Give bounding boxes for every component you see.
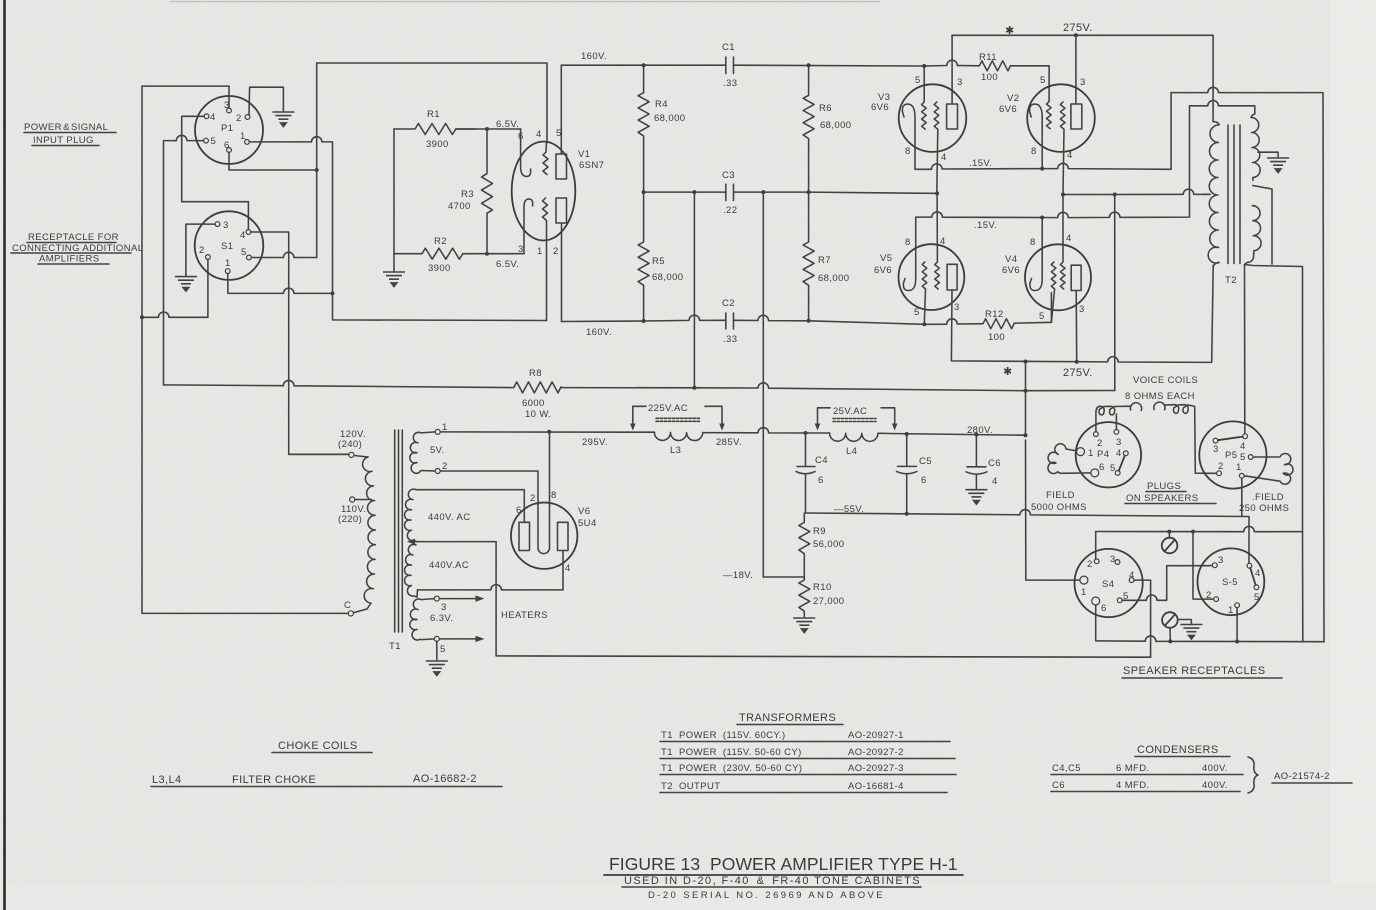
- plug P4: [1076, 422, 1141, 487]
- wire: HV center tap to heater/bias line: [409, 542, 1151, 658]
- V4 grid2 zigzag: [1060, 195, 1065, 290]
- wire: bottom speaker wire: [1096, 636, 1324, 642]
- ground below R1/R2 left: [393, 254, 395, 271]
- wire: P5 pin1 stem to -55V wire: [1241, 478, 1243, 516]
- V5 plate: [947, 264, 957, 290]
- wire: S4/S5 top wire: [1096, 526, 1303, 531]
- resistor R4: [638, 65, 649, 192]
- wire: secondary ground tap: [1258, 152, 1278, 157]
- wire: lower cathode rail .15V: [916, 106, 1190, 245]
- wire: S-5 pin1 stem to bottom wire: [1236, 608, 1238, 642]
- V1 upper cathode with pin6 stem: [521, 129, 531, 177]
- wire: P1 pin2 riser and to ground: [249, 87, 283, 115]
- wire: P1 pin5 left with hop, down long vertical to R8 row: [164, 135, 204, 385]
- junction node at 694.4,192.1: [692, 190, 696, 194]
- wire: P1 pin6 stem down and right to junction: [229, 152, 317, 170]
- resistor R7: [803, 192, 814, 321]
- label: RECEPTACLE FOR CONNECTING ADDITIONAL AMPLIFIERS: [11, 232, 143, 265]
- table CONDENSERS: [1051, 744, 1352, 793]
- ground at P1 pin2: [272, 112, 294, 127]
- wire: lower grid rail from C2 right to V5 pin5: [734, 315, 925, 324]
- wire: 280V segment L4 to B+ riser: [884, 433, 1026, 435]
- screw terminal upper: [1162, 532, 1178, 554]
- V5 cathode hook: [903, 245, 915, 291]
- junction node at 1075.9,35.3: [1074, 33, 1078, 37]
- wire: riser from filter B+ up to plate rail: [1025, 362, 1027, 436]
- wire: vertical from top long wire down through node to S1 pin5 wire: [316, 63, 318, 258]
- wire: S1 pin4 right then down to 120V terminal wire: [251, 232, 349, 454]
- terminal 2 of T1: [435, 469, 440, 474]
- capacitor C4: [796, 433, 815, 513]
- V2 plate: [1071, 104, 1082, 129]
- wire: secondary upper bottom lead: [1253, 186, 1272, 265]
- V2 grid2 zigzag: [1060, 102, 1065, 195]
- resistor R9: [799, 513, 810, 577]
- V3 grid2 zigzag: [934, 102, 939, 193]
- jumper S-5 pin4 to pin5: [1250, 568, 1255, 585]
- P5 field coil: [1244, 454, 1293, 485]
- junction node at 487,253.7: [485, 252, 489, 256]
- capacitor C1: [726, 57, 734, 74]
- wire: S1 pin3 left and down to ground: [186, 224, 215, 276]
- V3 cathode hook: [902, 104, 915, 151]
- wire: primary center tap connection: [1203, 193, 1210, 195]
- T1 primary winding: [353, 457, 375, 613]
- ground at T2 secondary: [1267, 158, 1289, 173]
- table TRANSFORMERS: [660, 712, 956, 793]
- wire: top long wire y63 from vertical to V1 pin4: [317, 63, 547, 143]
- junction node at 694.4,387.8: [692, 386, 696, 390]
- resistor R6: [803, 65, 814, 192]
- wire: S4 pin4 right and down to heater wire: [1134, 580, 1151, 657]
- bracket 225V.AC with arrows: [633, 406, 722, 428]
- receptacle S4: [1075, 549, 1143, 617]
- wire: 160V bottom rail segment V1 pin2 to C2: [562, 315, 726, 321]
- wire: junction down then right to V1 cathode bottom rail: [333, 293, 547, 320]
- wire: left long vertical from top corner down to T1 C-wire: [142, 86, 348, 613]
- V2 grid1 zigzag: [1047, 102, 1052, 129]
- resistor R5: [638, 192, 649, 321]
- resistor R1: [394, 124, 475, 135]
- wire: vertical from C3 rail down to R8 rail: [693, 192, 695, 388]
- wire: B+ rail continuing to T2 center tap: [1063, 189, 1210, 194]
- junction node at 1025.5,435.2: [1024, 433, 1028, 437]
- wire: C1 right to R6 top and V3 grid rail: [734, 60, 958, 66]
- V4 plate: [1071, 265, 1081, 290]
- wire: 275V top plate wire: [952, 34, 1213, 36]
- pin 3 of S1: [215, 222, 220, 227]
- L4 core dashes: [833, 419, 876, 422]
- junction node at 1114.7,194.5: [1113, 193, 1117, 197]
- wire: S1 pin1 down, right with hop, to junction: [228, 274, 333, 294]
- terminal 3 of T1: [434, 596, 439, 601]
- choke L3: [654, 432, 702, 440]
- pin 2 of P1: [245, 115, 250, 120]
- V3 grid1 zigzag: [922, 66, 927, 129]
- junction node at 1076.7,361.7: [1075, 360, 1079, 364]
- choke L4: [830, 433, 884, 441]
- plug P1: [195, 96, 263, 164]
- junction node at 643.6,65.2: [642, 63, 646, 67]
- capacitor C5: [897, 434, 918, 514]
- pin 6 of P1: [227, 148, 232, 153]
- wire: V4 plate stem down to plate rail: [1075, 291, 1078, 362]
- wire: long vertical from C3 rail down to -18V corner: [762, 192, 764, 577]
- junction node at 1042.2,217.5: [1040, 216, 1044, 220]
- resistor R2: [394, 248, 463, 259]
- V5 grid2 zigzag: [935, 193, 940, 289]
- V6 right anode: [558, 522, 569, 550]
- wire: -18V stub: [763, 576, 804, 578]
- V1 lower grid zigzag with pin1 stem: [543, 198, 548, 321]
- pin 3 of P1: [227, 108, 232, 113]
- tube V5 6V6: [874, 193, 964, 324]
- tube V6 5U4: [511, 432, 597, 574]
- ground at S1 pin3: [175, 277, 197, 292]
- junction node at 487,129: [485, 127, 489, 131]
- wire: V2 plate feed from 275V wire: [1075, 35, 1077, 104]
- wire: V5 plate stem down with hop to lower plate rail: [951, 265, 1213, 362]
- junction node at 808.6,320.8: [807, 319, 811, 323]
- V1 lower plate with pin2 stem: [556, 198, 567, 322]
- junction node at 1063,194.5: [1061, 193, 1065, 197]
- B+ rail dots at screen grids: [935, 191, 939, 195]
- junction node at 643.6,192.1: [642, 190, 646, 194]
- T1 5V winding: [410, 432, 435, 473]
- wire: 160V top rail from V1 pin5 to C1: [561, 65, 726, 142]
- wire: S1 pin5 right with hop, up into vertical: [251, 252, 316, 257]
- T1 6.3V winding: [410, 599, 434, 640]
- capacitor C2: [726, 313, 734, 329]
- junction node at 1237.1,641.5: [1235, 640, 1239, 644]
- tube V4 6V6: [1002, 195, 1091, 323]
- wire: 120V terminal to S1 pin4 drop (done above): [289, 453, 349, 455]
- junction node at 1042.2,168.6: [1040, 167, 1044, 171]
- wire: filter B+ riser down to S4 pin1: [1026, 440, 1080, 580]
- wire: R1 left vertical down to R2 and ground: [393, 129, 395, 254]
- wire: S4 pin6 down to bottom wire: [1095, 605, 1097, 641]
- wire: -55V rail from C4 to S5 step with hop: [806, 510, 1250, 564]
- receptacle S1: [195, 211, 264, 280]
- T1 core: [395, 430, 403, 632]
- transformer T2 secondary lower section: [1252, 206, 1261, 254]
- page border top faint: [170, 1, 880, 3]
- wire: P5 pin4 feed from secondary bottom: [1244, 265, 1246, 434]
- junction node at 906.7,513.7: [905, 512, 909, 516]
- junction node at 906.7,434: [905, 432, 909, 436]
- V3 plate: [947, 104, 958, 129]
- junction node at 1170.3,641.4: [1168, 639, 1172, 643]
- junction node at 332.5,293.4: [331, 291, 335, 295]
- page border line left: [3, 0, 6, 910]
- tube V2 6V6: [999, 75, 1095, 195]
- resistor R11: [957, 61, 1049, 102]
- wire: feedback wire A with hop over primary feed: [1171, 87, 1324, 641]
- wire: secondary bottom lead to right-side vertical: [1245, 254, 1303, 532]
- V6 left anode: [519, 522, 530, 550]
- junction node at 805.5,433: [804, 431, 808, 435]
- wire: 440V-1 top lead to V6 pin6: [416, 490, 524, 521]
- V4 grid1 zigzag: [1051, 262, 1056, 322]
- ground at R10: [793, 618, 815, 633]
- T2 core: [1228, 125, 1240, 264]
- wire: riser to S4 pin2: [1095, 532, 1097, 559]
- plug P5: [1199, 421, 1266, 488]
- transformer T2 primary winding: [1208, 122, 1219, 266]
- V2 cathode hook: [1030, 104, 1043, 151]
- V4 cathode hook: [1030, 218, 1042, 291]
- junction node at 1169.3,531.6: [1167, 530, 1171, 534]
- wire: primary top feed from 275V wire: [1212, 35, 1214, 121]
- terminal 110V tap of T1: [350, 497, 355, 502]
- wire: P1 pin1 right with hop over vertical, down to S1 pin1 row: [249, 137, 332, 294]
- V1 upper grid zigzag with pin4 stem: [543, 143, 548, 175]
- terminal 120V of T1: [349, 452, 354, 457]
- P4 field coil: [1048, 444, 1091, 474]
- label: POWER & SIGNAL INPUT PLUG: [24, 122, 116, 146]
- junction node at 808.6,192.1: [807, 190, 811, 194]
- pin 5 of S1: [247, 255, 252, 260]
- pin 4 of S1: [246, 230, 251, 235]
- wire: secondary feed wire B with hop: [1190, 101, 1255, 106]
- V5 pin5 junction dot: [922, 322, 926, 326]
- paper texture noise: [0, 0, 1, 1]
- wire: top wire from left vertical to P1 pin3: [142, 85, 229, 87]
- wire: V3 plate feed from 275V wire: [951, 35, 953, 104]
- wire: mid B+ rail from C3 to R6/R7 junction and to tubes: [734, 192, 938, 193]
- V1 upper plate with pin5 stem: [556, 142, 567, 179]
- wire: 295V rail from T1 terminal 1 to L3: [440, 431, 654, 433]
- junction node at 763.3,192.1: [761, 190, 765, 194]
- wire: B+ drop from plate rail area down (1114.8): [1114, 195, 1116, 391]
- wire: upper cathode rail .15V: [915, 93, 1171, 170]
- terminal 1 of T1: [435, 429, 440, 434]
- grid rail: C1 rail to V3 pin5, hop, R11: [922, 64, 926, 68]
- wire: P1 pin3 stem to top wire: [228, 86, 230, 108]
- T1 440V winding 1: [405, 489, 417, 541]
- resistor R3 vertical: [482, 129, 493, 254]
- wire: R1 right to V1 pin6 stem: [456, 128, 521, 130]
- L3 core dashes: [656, 418, 700, 421]
- terminal C of T1: [348, 611, 353, 616]
- T1 440V winding 2: [405, 544, 418, 597]
- pin 4 of P1: [204, 114, 209, 119]
- wire: 440V-2 bottom lead to V6 pin4 stem with hop: [418, 552, 564, 590]
- wire: mid B+ rail from R4/R5 junction to C3: [644, 191, 726, 193]
- capacitor C6: [966, 435, 987, 489]
- capacitor C3: [726, 184, 734, 200]
- wire: S4 pin5 to S5 pins 3 and 2: [1122, 565, 1213, 600]
- node junction at 316.7,170: [315, 168, 319, 172]
- jumper P5 pin3 to pin4: [1218, 437, 1243, 441]
- heater arrow from terminal 5: [439, 638, 477, 640]
- wire: S1 pin2 down then left to left vertical: [142, 259, 208, 317]
- ground at C6: [965, 490, 987, 505]
- tube V1 6SN7 envelope: [512, 142, 576, 241]
- resistor R8: [164, 380, 562, 392]
- ground below terminal 5: [436, 641, 438, 660]
- transformer T2 secondary upper section: [1251, 106, 1260, 181]
- junction node at 976.4,434.5: [974, 433, 978, 437]
- screw terminal lower with ground: [1162, 612, 1202, 641]
- pin 1 of P1: [245, 140, 250, 145]
- wire: 285V segment L3 to L4 with hop: [703, 428, 830, 433]
- P4 voice coil squiggle to P5: [1096, 402, 1217, 473]
- terminal 5 of T1: [434, 636, 439, 641]
- resistor R12: [924, 293, 1051, 329]
- junction node at 808.6,65.2: [807, 63, 811, 67]
- wire: right vertical lower segment to bottom wire: [1302, 532, 1304, 642]
- junction node at 549.2,431.8: [547, 430, 551, 434]
- wire: R8 rail right portion to B+ drop: [561, 383, 1115, 391]
- junction node at 1025.5,361.5: [1024, 360, 1028, 364]
- receptacle S-5: [1198, 548, 1265, 616]
- resistor R10: [799, 577, 810, 617]
- junction node at 1193,531.6: [1191, 530, 1195, 534]
- heater arrow from terminal 3: [439, 598, 477, 600]
- junction node at 142,317.3: [140, 315, 144, 319]
- bracket 25V.AC with arrows: [818, 408, 895, 428]
- wire: terminal 2 to V6 left filament leg: [440, 471, 538, 504]
- table CHOKE COILS: [151, 740, 502, 787]
- jumper P4 pin4 to pin5: [1119, 456, 1125, 471]
- wire: R2 right to V1 pin3 stem: [463, 253, 524, 255]
- junction node at 643.6,321: [642, 319, 646, 323]
- title FIGURE 13: [604, 854, 963, 901]
- junction node at 1025.5,390.7: [1024, 389, 1028, 393]
- wire: P1 pin4 left then down: [182, 116, 249, 229]
- tube V3 6V6: [871, 66, 966, 193]
- pin 5 of P1: [204, 138, 209, 143]
- pin 1 of S1: [225, 269, 230, 274]
- V6 filament U: [538, 432, 550, 554]
- V1 lower cathode with pin3 stem: [524, 199, 533, 254]
- pin 2 of S1: [206, 255, 211, 260]
- V5 grid1 zigzag: [922, 262, 927, 324]
